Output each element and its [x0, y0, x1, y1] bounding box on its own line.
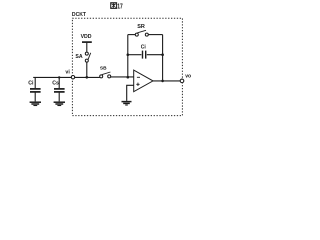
VDD rail	[82, 41, 92, 43]
wire main input horizontal	[33, 76, 100, 78]
switch SR	[135, 30, 148, 36]
svg-text:SR: SR	[137, 24, 145, 30]
node junction (Cs tap)	[58, 76, 60, 78]
op-amp minus sign	[137, 76, 140, 78]
node junction (cap branch left)	[127, 53, 130, 56]
node junction (output / feedback)	[161, 80, 164, 83]
svg-text:Cs: Cs	[52, 80, 59, 86]
svg-text:vi: vi	[65, 70, 70, 76]
svg-text:SB: SB	[100, 66, 107, 72]
node junction (inverting node)	[127, 76, 130, 79]
op-amp plus sign	[136, 83, 139, 86]
wire feedback right vertical	[162, 35, 164, 81]
wire feedback left vertical	[127, 35, 129, 78]
switch SA	[85, 52, 90, 77]
svg-text:17: 17	[117, 1, 123, 10]
svg-text:SA: SA	[75, 54, 82, 60]
ground (Cs)	[54, 102, 65, 105]
node vi terminal	[71, 76, 74, 79]
dashed box DCKT	[72, 18, 182, 115]
figure label 図17	[111, 1, 123, 10]
wire SB to inverting input	[111, 76, 134, 78]
wire non-inverting input to ground	[127, 85, 134, 101]
switch SB	[100, 72, 111, 78]
svg-text:DCKT: DCKT	[72, 12, 87, 18]
wire feedback top-right	[148, 34, 162, 36]
ground (left cap)	[30, 102, 41, 105]
node junction (SA / main wire)	[86, 76, 89, 79]
op-amp U1	[134, 70, 153, 92]
svg-text:Ci: Ci	[141, 45, 147, 51]
capacitor Ci (feedback)	[128, 51, 163, 59]
wire output	[153, 80, 180, 82]
svg-text:vo: vo	[185, 73, 191, 79]
svg-text:Ci: Ci	[28, 80, 34, 86]
node junction (cap branch right)	[161, 53, 164, 56]
capacitor Ci (left)	[30, 77, 41, 101]
node vo terminal	[180, 79, 184, 83]
ground (op-amp +)	[122, 102, 132, 105]
svg-text:VDD: VDD	[81, 34, 92, 40]
wire feedback top-left	[128, 34, 136, 36]
capacitor Cs	[54, 77, 65, 101]
